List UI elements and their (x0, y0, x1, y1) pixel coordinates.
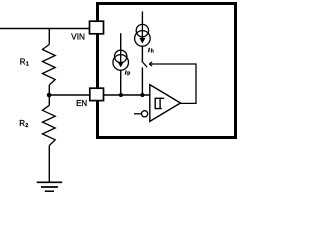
wire Ip to EN node (120, 70, 122, 95)
wire Ih supply (141, 12, 143, 25)
svg-text:R: R (19, 119, 25, 128)
pin EN (90, 88, 104, 100)
comparator U2 (150, 85, 181, 122)
node Ih junction (140, 93, 144, 97)
svg-text:1: 1 (26, 62, 29, 68)
node Ip junction (119, 93, 123, 97)
wire comparator output feedback (149, 64, 196, 103)
current source Ih (136, 24, 148, 36)
resistor R1 (42, 45, 55, 86)
svg-text:VIN: VIN (71, 33, 85, 42)
node EN divider junction (47, 93, 52, 98)
pin VIN (90, 21, 104, 34)
wire R1 to R2 (48, 85, 50, 105)
wire Ip supply stub (120, 33, 122, 50)
arrowhead switch control (149, 62, 152, 66)
IC U1 box (98, 4, 236, 138)
wire Ih to switch (141, 46, 143, 61)
current source Ip (115, 50, 127, 62)
svg-text:2: 2 (25, 123, 28, 129)
svg-text:h: h (151, 48, 154, 54)
svg-text:p: p (127, 71, 130, 77)
switch S1 blade (142, 61, 147, 67)
wire switch to EN node (141, 67, 143, 95)
inverting input bubble (134, 113, 141, 115)
hysteresis symbol (155, 98, 164, 108)
wire R2 to ground (48, 146, 50, 182)
label Ih (148, 48, 150, 52)
wire R1 top (48, 29, 50, 45)
wire EN left (49, 94, 90, 96)
ground (37, 181, 63, 183)
resistor R2 (42, 105, 55, 145)
label Ip (125, 71, 127, 75)
wire VIN input (0, 28, 90, 30)
svg-text:EN: EN (76, 99, 87, 108)
wire EN internal (104, 94, 150, 96)
